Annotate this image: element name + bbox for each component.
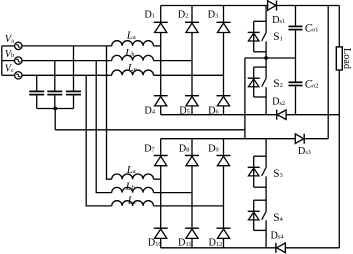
- svg-text:Lc: Lc: [127, 194, 137, 206]
- svg-text:D2: D2: [178, 10, 189, 21]
- svg-text:D11: D11: [178, 238, 192, 249]
- svg-text:Lb: Lb: [125, 180, 135, 192]
- svg-text:Lb: Lb: [124, 47, 134, 59]
- svg-text:D7: D7: [144, 143, 155, 154]
- svg-text:D10: D10: [148, 238, 162, 249]
- svg-text:Vb: Vb: [5, 49, 14, 60]
- svg-text:Ds4: Ds4: [271, 230, 285, 241]
- svg-text:Load: Load: [341, 48, 352, 69]
- svg-text:La: La: [126, 164, 136, 176]
- svg-text:Ds3: Ds3: [298, 146, 311, 157]
- svg-text:D9: D9: [208, 143, 219, 154]
- svg-text:Va: Va: [5, 34, 14, 45]
- svg-text:S4: S4: [273, 212, 283, 224]
- svg-text:D5: D5: [179, 105, 190, 116]
- svg-text:Ds1: Ds1: [272, 15, 285, 26]
- svg-text:S1: S1: [273, 31, 282, 43]
- svg-text:D3: D3: [208, 10, 219, 21]
- svg-text:Vc: Vc: [5, 64, 14, 75]
- svg-text:D4: D4: [144, 105, 155, 116]
- svg-text:Co1: Co1: [305, 22, 319, 34]
- svg-text:La: La: [126, 30, 136, 42]
- svg-text:D8: D8: [179, 143, 190, 154]
- svg-text:S3: S3: [273, 168, 282, 180]
- svg-text:D1: D1: [144, 10, 155, 21]
- svg-text:Co2: Co2: [305, 78, 319, 90]
- svg-text:Lc: Lc: [127, 62, 137, 74]
- svg-text:Ds2: Ds2: [272, 97, 285, 108]
- svg-text:D12: D12: [209, 238, 223, 249]
- svg-text:S2: S2: [273, 78, 282, 90]
- svg-text:D6: D6: [208, 105, 219, 116]
